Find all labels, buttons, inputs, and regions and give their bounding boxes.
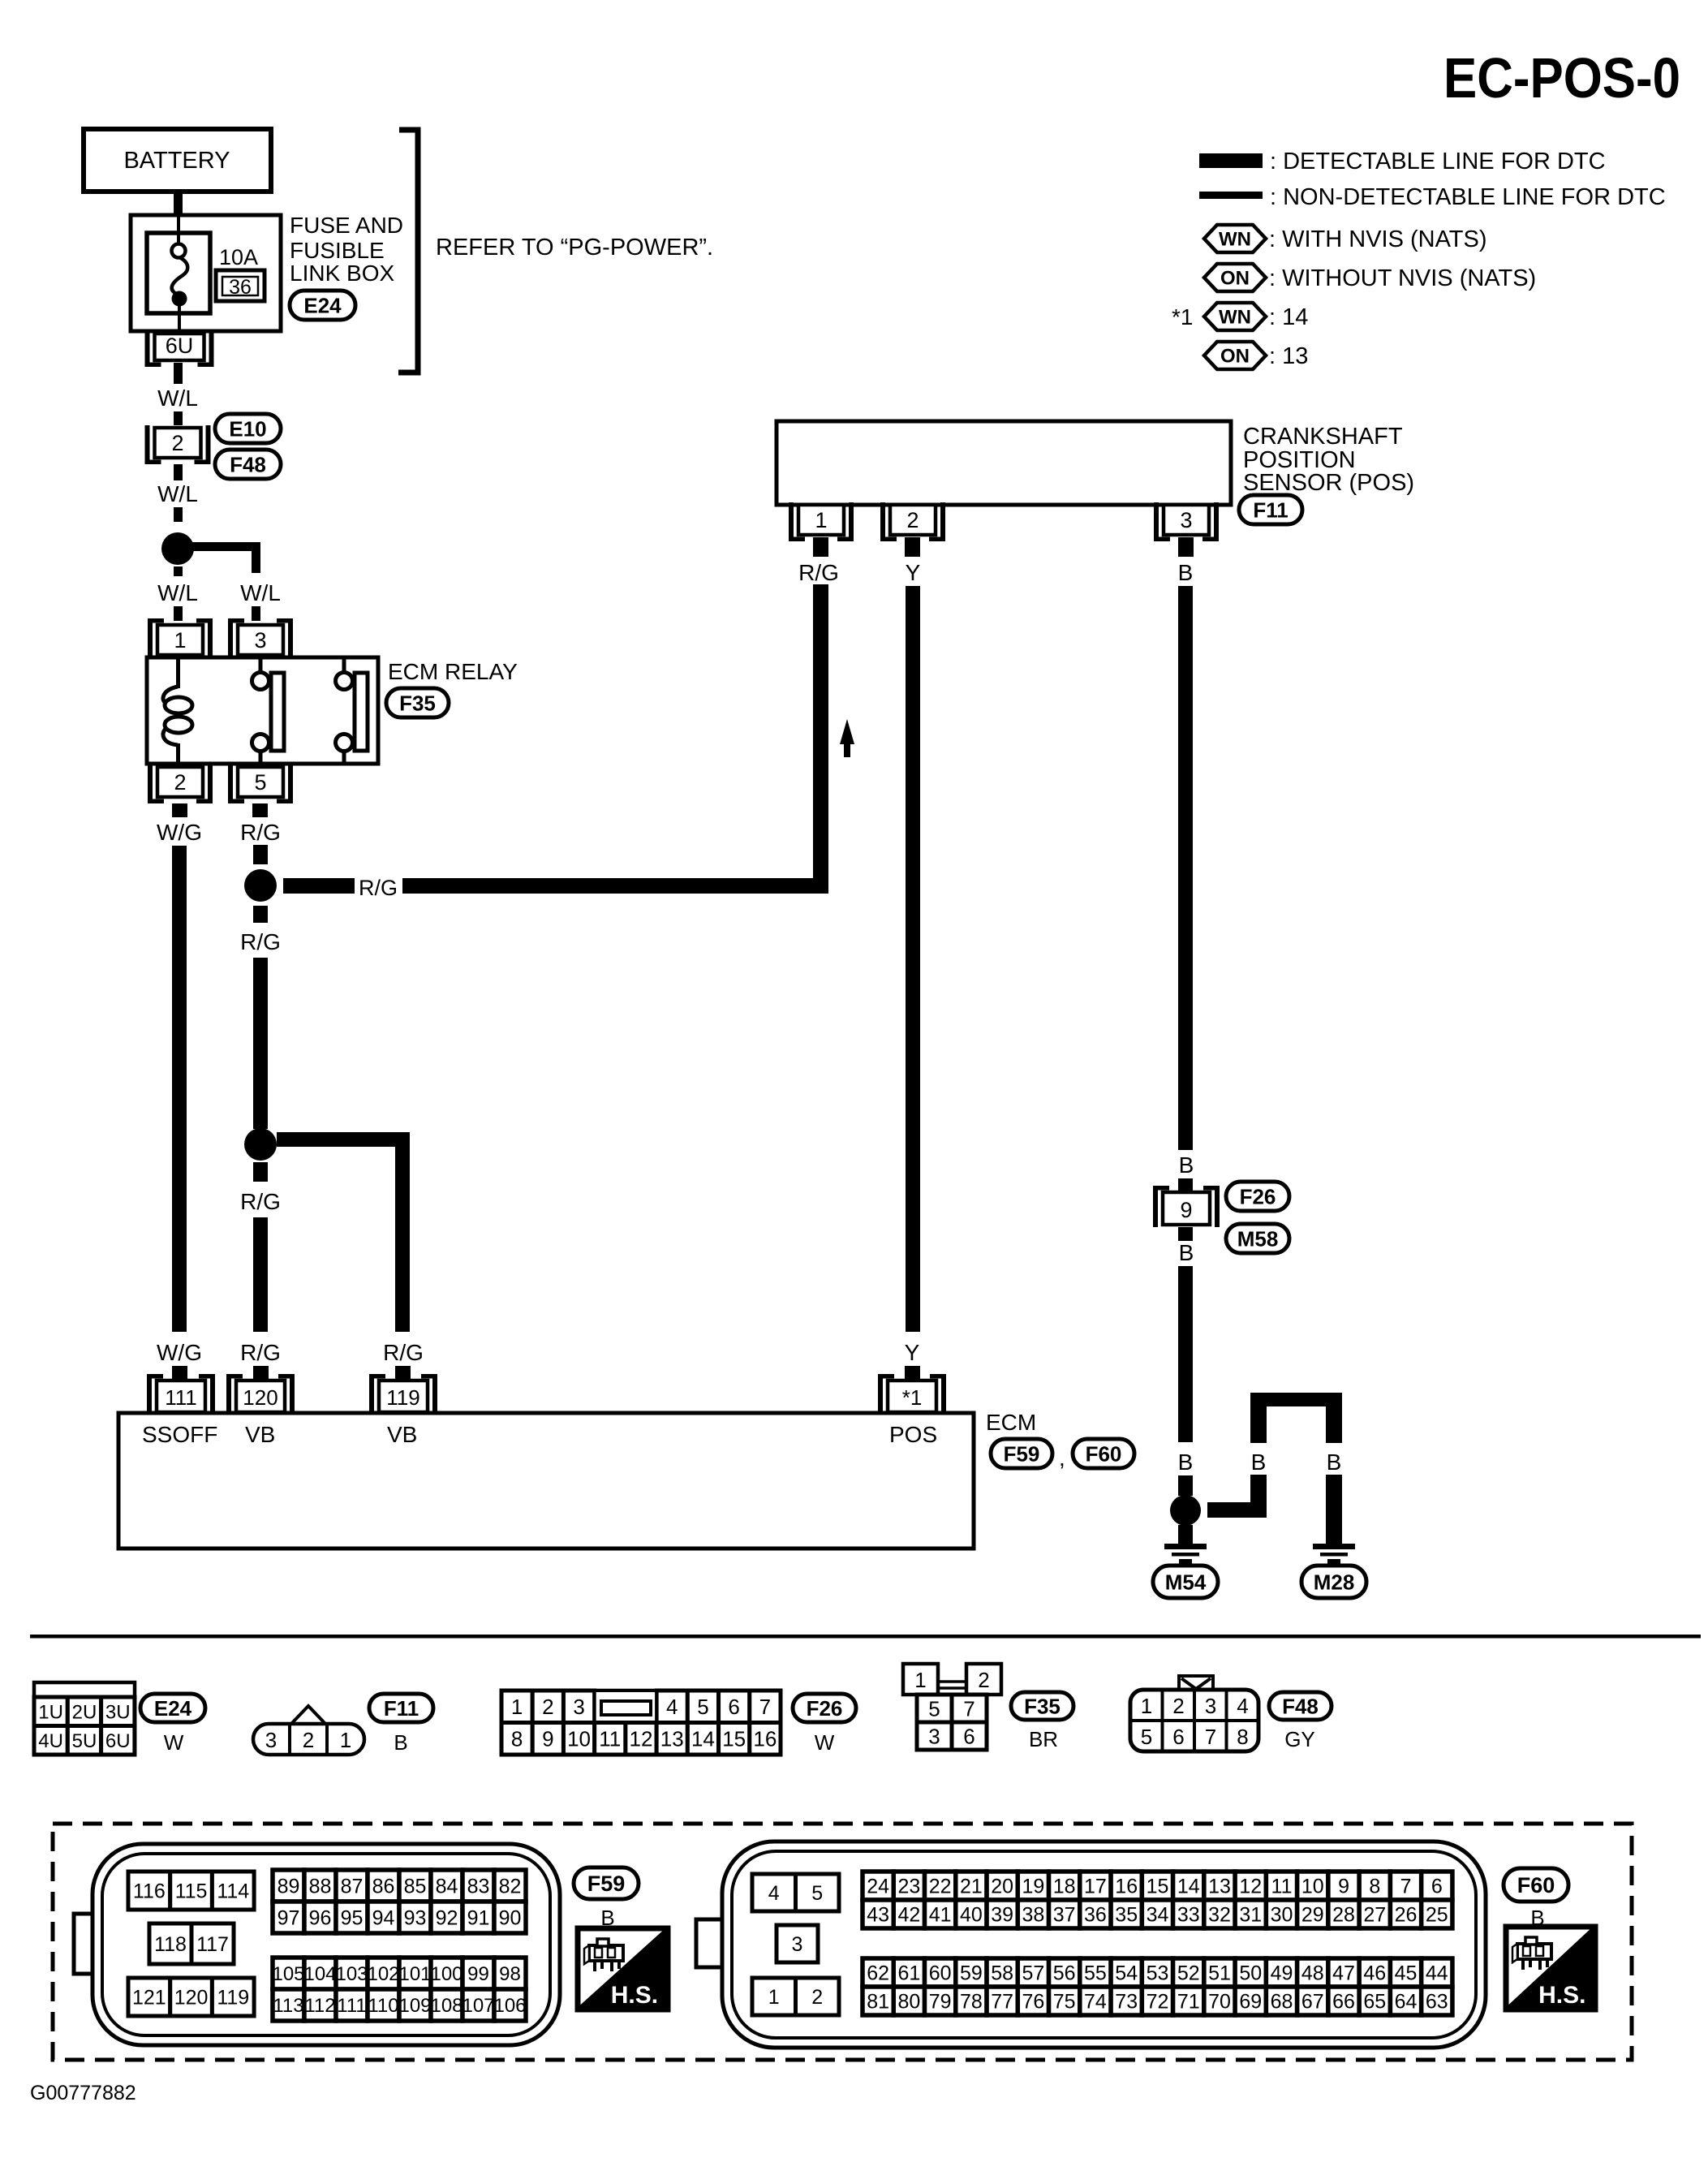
connector F48 oval xyxy=(215,450,281,479)
wire label B above dot xyxy=(1178,1449,1194,1475)
svg-text:99: 99 xyxy=(467,1963,489,1985)
junction dot W/L xyxy=(161,532,194,565)
connector M58 oval ref xyxy=(1226,1224,1289,1253)
svg-text:49: 49 xyxy=(1271,1962,1293,1985)
connector F26 color W xyxy=(815,1730,835,1755)
wire B U-left lower and link to dot xyxy=(1207,1475,1267,1518)
svg-text:47: 47 xyxy=(1332,1962,1355,1985)
wire stub below connector 2 xyxy=(174,464,183,480)
wire stub sensor pin 1 xyxy=(813,537,828,557)
wire label Y sensor xyxy=(906,560,921,585)
svg-text:100: 100 xyxy=(430,1963,462,1985)
legend ON hexagon xyxy=(1204,264,1266,291)
svg-text:BATTERY: BATTERY xyxy=(123,148,230,174)
svg-text:M28: M28 xyxy=(1314,1570,1355,1594)
svg-text:BR: BR xyxy=(1029,1727,1058,1751)
battery xyxy=(84,129,271,192)
harness symbol H.S. F60 xyxy=(1506,1927,1595,2009)
svg-text:5: 5 xyxy=(697,1695,708,1719)
svg-text:61: 61 xyxy=(897,1962,920,1985)
svg-text:117: 117 xyxy=(196,1933,229,1956)
separator line xyxy=(30,1635,1701,1639)
svg-text:14: 14 xyxy=(1177,1876,1200,1898)
svg-text:69: 69 xyxy=(1239,1991,1262,2014)
ECM connector face F60 xyxy=(696,1841,1486,2048)
svg-text:92: 92 xyxy=(436,1907,458,1930)
svg-text:118: 118 xyxy=(154,1933,187,1956)
svg-text:43: 43 xyxy=(867,1904,889,1927)
svg-text:R/G: R/G xyxy=(240,1340,281,1365)
connector E10 oval xyxy=(215,414,281,443)
connector F59 oval ref xyxy=(991,1439,1052,1468)
svg-text:27: 27 xyxy=(1363,1904,1386,1927)
svg-text:3: 3 xyxy=(792,1933,803,1956)
connector F35 oval label xyxy=(1011,1692,1073,1720)
svg-text:7: 7 xyxy=(1205,1725,1216,1749)
legend non-detectable text xyxy=(1270,184,1666,210)
ECM pin 119 xyxy=(369,1374,437,1415)
label ECM xyxy=(986,1410,1036,1435)
connector 2 (E10/F48) xyxy=(145,425,211,464)
svg-text:79: 79 xyxy=(929,1991,952,2014)
svg-text:1: 1 xyxy=(340,1728,351,1752)
comma separator xyxy=(1059,1445,1065,1471)
svg-text:9: 9 xyxy=(542,1727,553,1751)
svg-text:29: 29 xyxy=(1301,1904,1324,1927)
ECM pin name SSOFF xyxy=(142,1422,217,1447)
svg-text:23: 23 xyxy=(897,1876,920,1898)
svg-text:8: 8 xyxy=(511,1727,523,1751)
svg-text:2: 2 xyxy=(978,1668,989,1692)
svg-text:F26: F26 xyxy=(807,1696,843,1721)
svg-text:71: 71 xyxy=(1177,1991,1200,2014)
svg-text:F11: F11 xyxy=(384,1696,419,1721)
ground symbol M54 xyxy=(1164,1544,1207,1564)
svg-text:21: 21 xyxy=(960,1876,983,1898)
svg-text:4U: 4U xyxy=(38,1730,63,1752)
svg-text:5U: 5U xyxy=(72,1730,97,1752)
wire label B U-left xyxy=(1251,1449,1267,1475)
ECM pin 120 xyxy=(226,1374,295,1415)
svg-text:6U: 6U xyxy=(166,334,194,358)
svg-text:B: B xyxy=(1179,1152,1194,1178)
wire W/G vertical xyxy=(172,846,187,1332)
svg-text:25: 25 xyxy=(1426,1904,1448,1927)
svg-text:82: 82 xyxy=(499,1876,522,1898)
svg-text:: 14: : 14 xyxy=(1269,304,1308,330)
svg-text:65: 65 xyxy=(1363,1991,1386,2014)
wire R/G dash xyxy=(253,845,268,864)
svg-text:ECM: ECM xyxy=(986,1410,1036,1435)
label ECM RELAY xyxy=(388,659,518,684)
wire stub sensor pin 3 xyxy=(1178,537,1194,557)
connector pin 6U xyxy=(145,331,214,367)
wire W/L branch to pin 3 xyxy=(178,542,260,573)
svg-text:1: 1 xyxy=(815,508,827,532)
svg-text:36: 36 xyxy=(1084,1904,1107,1927)
svg-text:33: 33 xyxy=(1177,1904,1200,1927)
relay pin 3 xyxy=(228,618,293,657)
bracket refer note xyxy=(398,130,418,373)
legend WN text xyxy=(1269,226,1487,252)
connector E24 color W xyxy=(164,1730,184,1755)
wire stub sensor pin 2 xyxy=(905,537,920,557)
svg-text:F26: F26 xyxy=(1240,1184,1276,1208)
svg-text:86: 86 xyxy=(372,1876,395,1898)
svg-text:W: W xyxy=(164,1730,184,1755)
svg-text:2U: 2U xyxy=(72,1701,97,1723)
svg-text:8: 8 xyxy=(1369,1876,1380,1898)
wire Y vertical xyxy=(906,586,920,1332)
svg-text:12: 12 xyxy=(630,1727,653,1751)
svg-text:G00777882: G00777882 xyxy=(30,2082,136,2104)
svg-text:F48: F48 xyxy=(230,452,266,476)
svg-text:M58: M58 xyxy=(1237,1226,1279,1251)
svg-text:Y: Y xyxy=(906,560,921,585)
legend ON text xyxy=(1269,265,1536,291)
svg-text:1U: 1U xyxy=(38,1701,63,1723)
svg-text:4: 4 xyxy=(666,1695,678,1719)
svg-text:B: B xyxy=(1251,1449,1267,1475)
svg-text:9: 9 xyxy=(1338,1876,1349,1898)
connector F59 color B xyxy=(600,1906,614,1930)
wire label B below connector 9 xyxy=(1179,1240,1194,1265)
svg-text:CRANKSHAFT: CRANKSHAFT xyxy=(1243,424,1403,450)
svg-text:83: 83 xyxy=(467,1876,490,1898)
connector F60 color B xyxy=(1530,1906,1544,1930)
svg-text:109: 109 xyxy=(398,1995,431,2017)
svg-text:51: 51 xyxy=(1208,1962,1231,1985)
ECM pin name VB xyxy=(245,1422,275,1447)
svg-text:7: 7 xyxy=(1400,1876,1412,1898)
svg-text:1: 1 xyxy=(768,1986,780,2009)
relay pin 2 xyxy=(148,765,213,803)
legend detectable line sample xyxy=(1199,153,1263,168)
wire R/G vertical middle xyxy=(253,958,268,1129)
fuse and fusible link box E24 outline xyxy=(131,215,281,331)
connector F26 oval ref xyxy=(1226,1182,1289,1211)
svg-text:W/L: W/L xyxy=(157,481,198,506)
note WN hexagon xyxy=(1204,303,1266,330)
svg-text:R/G: R/G xyxy=(359,876,398,900)
svg-text:H.S.: H.S. xyxy=(1538,1982,1585,2009)
wire label R/G on horizontal xyxy=(359,876,398,900)
wire label W/L right xyxy=(240,580,281,605)
svg-text:3: 3 xyxy=(1180,508,1192,532)
svg-text:16: 16 xyxy=(1115,1876,1138,1898)
svg-text:102: 102 xyxy=(367,1963,399,1985)
wire label W/L xyxy=(157,386,198,411)
note REFER TO PG-POWER xyxy=(436,235,713,261)
connector F48 oval label xyxy=(1269,1692,1332,1720)
svg-text:4: 4 xyxy=(1237,1694,1248,1718)
wire label W/G bottom xyxy=(157,1340,202,1365)
connector face F26 xyxy=(501,1691,781,1755)
svg-text:110: 110 xyxy=(368,1995,398,2017)
svg-text:10: 10 xyxy=(567,1727,591,1751)
svg-text:94: 94 xyxy=(372,1907,395,1930)
wire label B above connector 9 xyxy=(1179,1152,1194,1178)
svg-text:ON: ON xyxy=(1220,268,1250,290)
svg-text:53: 53 xyxy=(1147,1962,1169,1985)
svg-text:SENSOR (POS): SENSOR (POS) xyxy=(1243,470,1414,496)
wire B vertical lower xyxy=(1178,1266,1193,1442)
svg-text:96: 96 xyxy=(309,1907,332,1930)
svg-text:44: 44 xyxy=(1426,1962,1448,1985)
svg-text:50: 50 xyxy=(1239,1962,1262,1985)
wire stub below 6U xyxy=(174,363,183,384)
svg-text:66: 66 xyxy=(1332,1991,1355,2014)
note ON hexagon xyxy=(1204,342,1266,369)
wire label R/G xyxy=(240,929,281,954)
sensor pin 3 xyxy=(1154,502,1219,541)
connector F48 color GY xyxy=(1284,1727,1315,1751)
wire label R/G bottom branch xyxy=(383,1340,424,1365)
svg-text:78: 78 xyxy=(960,1991,983,2014)
svg-text:17: 17 xyxy=(1084,1876,1107,1898)
svg-text:20: 20 xyxy=(991,1876,1013,1898)
svg-text:6: 6 xyxy=(963,1724,974,1748)
svg-text:3U: 3U xyxy=(105,1701,131,1723)
svg-text:87: 87 xyxy=(341,1876,364,1898)
svg-text:59: 59 xyxy=(960,1962,983,1985)
connector E24 oval xyxy=(290,291,355,320)
connector F35 color BR xyxy=(1029,1727,1058,1751)
connector F60 oval ref xyxy=(1073,1439,1134,1468)
svg-text:VB: VB xyxy=(387,1422,417,1447)
wire stub to pin *1 xyxy=(905,1366,920,1381)
wire W/L dash xyxy=(174,507,183,522)
svg-text:F59: F59 xyxy=(1004,1441,1040,1466)
svg-text:W/G: W/G xyxy=(157,1340,202,1365)
svg-text:2: 2 xyxy=(174,770,186,795)
svg-text:5: 5 xyxy=(1141,1725,1152,1749)
svg-text:E24: E24 xyxy=(154,1696,192,1721)
wire label B sensor xyxy=(1178,560,1194,585)
svg-text:67: 67 xyxy=(1301,1991,1324,2014)
svg-text:41: 41 xyxy=(929,1904,952,1927)
sensor pin 2 xyxy=(880,502,945,541)
svg-text:111: 111 xyxy=(165,1385,197,1410)
svg-text:*1: *1 xyxy=(1172,304,1193,330)
wire label W/G xyxy=(157,820,202,845)
connector F11 oval label xyxy=(369,1694,433,1722)
wire label W/L left xyxy=(157,580,198,605)
svg-text:R/G: R/G xyxy=(798,560,839,585)
svg-text:52: 52 xyxy=(1177,1962,1200,1985)
svg-text:2: 2 xyxy=(1172,1694,1184,1718)
dashed outline box xyxy=(53,1824,1632,2060)
relay contact A xyxy=(252,659,285,764)
svg-text:74: 74 xyxy=(1084,1991,1107,2014)
wire R/G branch to pin 119 xyxy=(277,1132,410,1332)
svg-text:105: 105 xyxy=(272,1963,304,1985)
svg-text:63: 63 xyxy=(1426,1991,1448,2014)
svg-text:40: 40 xyxy=(960,1904,983,1927)
svg-text:81: 81 xyxy=(867,1991,889,2014)
wire label W/L xyxy=(157,481,198,506)
svg-text:1: 1 xyxy=(511,1695,523,1719)
junction dot B xyxy=(1170,1495,1201,1526)
wire B vertical upper xyxy=(1178,586,1193,1150)
wire R/G dash below dot xyxy=(253,906,268,923)
svg-text:6U: 6U xyxy=(105,1730,131,1752)
svg-text:11: 11 xyxy=(1271,1876,1293,1898)
svg-text:W: W xyxy=(815,1730,835,1755)
svg-text:GY: GY xyxy=(1284,1727,1315,1751)
svg-text:F11: F11 xyxy=(1253,498,1288,522)
wire stub below connector 9 xyxy=(1178,1227,1193,1241)
connector E24 oval label xyxy=(140,1694,205,1722)
svg-text:R/G: R/G xyxy=(383,1340,424,1365)
ECM pin *1 xyxy=(878,1374,946,1415)
svg-text:11: 11 xyxy=(599,1727,621,1751)
svg-text:F60: F60 xyxy=(1517,1873,1555,1897)
svg-text:3: 3 xyxy=(573,1695,584,1719)
svg-text:73: 73 xyxy=(1115,1991,1138,2014)
wire label Y bottom xyxy=(905,1340,920,1365)
connector F11 oval ref xyxy=(1239,495,1302,524)
svg-text:5: 5 xyxy=(254,770,266,795)
svg-text:120: 120 xyxy=(174,1987,209,2009)
svg-text:90: 90 xyxy=(499,1907,522,1930)
svg-text:2: 2 xyxy=(303,1728,314,1752)
svg-text:3: 3 xyxy=(1205,1694,1216,1718)
svg-text:114: 114 xyxy=(217,1880,249,1903)
svg-text:B: B xyxy=(1179,1240,1194,1265)
svg-text:2: 2 xyxy=(906,508,919,532)
svg-text:75: 75 xyxy=(1053,1991,1076,2014)
svg-text:3: 3 xyxy=(928,1724,940,1748)
wire label R/G bottom xyxy=(240,1340,281,1365)
svg-text:55: 55 xyxy=(1084,1962,1107,1985)
wire R/G vertical lower xyxy=(253,1217,268,1332)
wire B inverted-U xyxy=(1250,1393,1342,1443)
svg-text:1: 1 xyxy=(1141,1694,1152,1718)
svg-text:FUSE AND: FUSE AND xyxy=(290,213,403,238)
svg-text:64: 64 xyxy=(1395,1991,1418,2014)
svg-text:89: 89 xyxy=(277,1876,300,1898)
flow arrow up xyxy=(840,719,854,757)
svg-text:W/L: W/L xyxy=(157,580,198,605)
svg-text:88: 88 xyxy=(309,1876,332,1898)
svg-text:77: 77 xyxy=(991,1991,1013,2014)
legend non-detectable line sample xyxy=(1199,192,1263,199)
svg-text:76: 76 xyxy=(1022,1991,1045,2014)
svg-text:36: 36 xyxy=(229,276,252,299)
svg-text:115: 115 xyxy=(175,1880,208,1903)
svg-text:28: 28 xyxy=(1332,1904,1355,1927)
legend detectable text xyxy=(1270,149,1606,174)
wire stub R/G xyxy=(252,803,268,817)
wire stub to relay pin 1 xyxy=(174,606,183,621)
svg-text:72: 72 xyxy=(1147,1991,1169,2014)
ground M28 oval xyxy=(1301,1566,1366,1598)
figure id G00777882 xyxy=(30,2082,136,2104)
svg-text:58: 58 xyxy=(991,1962,1013,1985)
svg-text:56: 56 xyxy=(1053,1962,1076,1985)
connector F59 oval label xyxy=(574,1867,639,1899)
svg-text:10A: 10A xyxy=(219,245,258,269)
svg-text:E10: E10 xyxy=(229,416,266,441)
svg-text:113: 113 xyxy=(273,1995,303,2017)
svg-text:: 13: : 13 xyxy=(1269,343,1308,369)
harness symbol H.S. F59 xyxy=(578,1928,668,2009)
svg-text:35: 35 xyxy=(1115,1904,1138,1927)
connector face E24 xyxy=(34,1682,135,1755)
svg-text:104: 104 xyxy=(303,1963,336,1985)
svg-text:93: 93 xyxy=(404,1907,427,1930)
svg-text:4: 4 xyxy=(768,1882,780,1905)
wire label B U-right xyxy=(1327,1449,1342,1475)
svg-text:62: 62 xyxy=(867,1962,889,1985)
ECM box xyxy=(118,1413,974,1549)
svg-text:ON: ON xyxy=(1220,346,1250,368)
svg-text:106: 106 xyxy=(493,1995,526,2017)
svg-text:2: 2 xyxy=(171,431,183,455)
wire stub to relay pin 3 xyxy=(252,606,260,621)
svg-text:16: 16 xyxy=(753,1727,777,1751)
label FUSE AND FUSIBLE LINK BOX xyxy=(290,213,403,286)
sensor pin 1 xyxy=(789,502,854,541)
junction dot R/G lower xyxy=(244,1128,277,1161)
svg-text:M54: M54 xyxy=(1165,1570,1207,1594)
svg-text:Y: Y xyxy=(905,1340,920,1365)
wire label R/G sensor xyxy=(798,560,839,585)
svg-text:45: 45 xyxy=(1395,1962,1418,1985)
svg-text:F35: F35 xyxy=(1024,1694,1061,1718)
svg-text:POS: POS xyxy=(889,1422,937,1447)
svg-text:B: B xyxy=(394,1730,407,1755)
svg-text:9: 9 xyxy=(1180,1198,1192,1222)
svg-text:98: 98 xyxy=(499,1963,521,1985)
crankshaft position sensor box xyxy=(777,421,1231,505)
ECM pin 111 xyxy=(147,1374,215,1415)
svg-text:F48: F48 xyxy=(1282,1694,1319,1718)
svg-text:34: 34 xyxy=(1147,1904,1169,1927)
fuse number 36 box xyxy=(216,270,265,301)
svg-text:13: 13 xyxy=(1208,1876,1231,1898)
svg-text:REFER TO “PG-POWER”.: REFER TO “PG-POWER”. xyxy=(436,235,713,261)
wire B U-right lower xyxy=(1326,1475,1342,1544)
svg-text:108: 108 xyxy=(430,1995,462,2017)
svg-text:38: 38 xyxy=(1022,1904,1045,1927)
svg-text:1: 1 xyxy=(914,1668,926,1692)
svg-text:116: 116 xyxy=(133,1880,166,1903)
svg-text:84: 84 xyxy=(436,1876,458,1898)
svg-text:F35: F35 xyxy=(399,691,436,715)
svg-text:18: 18 xyxy=(1053,1876,1076,1898)
svg-text:W/L: W/L xyxy=(240,580,281,605)
svg-text:2: 2 xyxy=(542,1695,553,1719)
title EC-POS-0 xyxy=(1443,46,1680,110)
svg-text:6: 6 xyxy=(728,1695,739,1719)
junction dot R/G upper xyxy=(244,869,277,902)
relay coil xyxy=(163,659,192,764)
connector face F11 xyxy=(253,1706,364,1755)
svg-text:LINK BOX: LINK BOX xyxy=(290,261,394,286)
svg-text:57: 57 xyxy=(1022,1962,1045,1985)
svg-text:107: 107 xyxy=(462,1995,494,2017)
svg-text:R/G: R/G xyxy=(240,820,281,845)
svg-text:SSOFF: SSOFF xyxy=(142,1422,217,1447)
wire R/G vertical to sensor pin 1 xyxy=(813,584,828,894)
wire label R/G xyxy=(240,1189,281,1214)
svg-text:121: 121 xyxy=(132,1987,166,2009)
svg-text:14: 14 xyxy=(691,1727,715,1751)
svg-text:60: 60 xyxy=(929,1962,952,1985)
note *1 label xyxy=(1172,304,1193,330)
